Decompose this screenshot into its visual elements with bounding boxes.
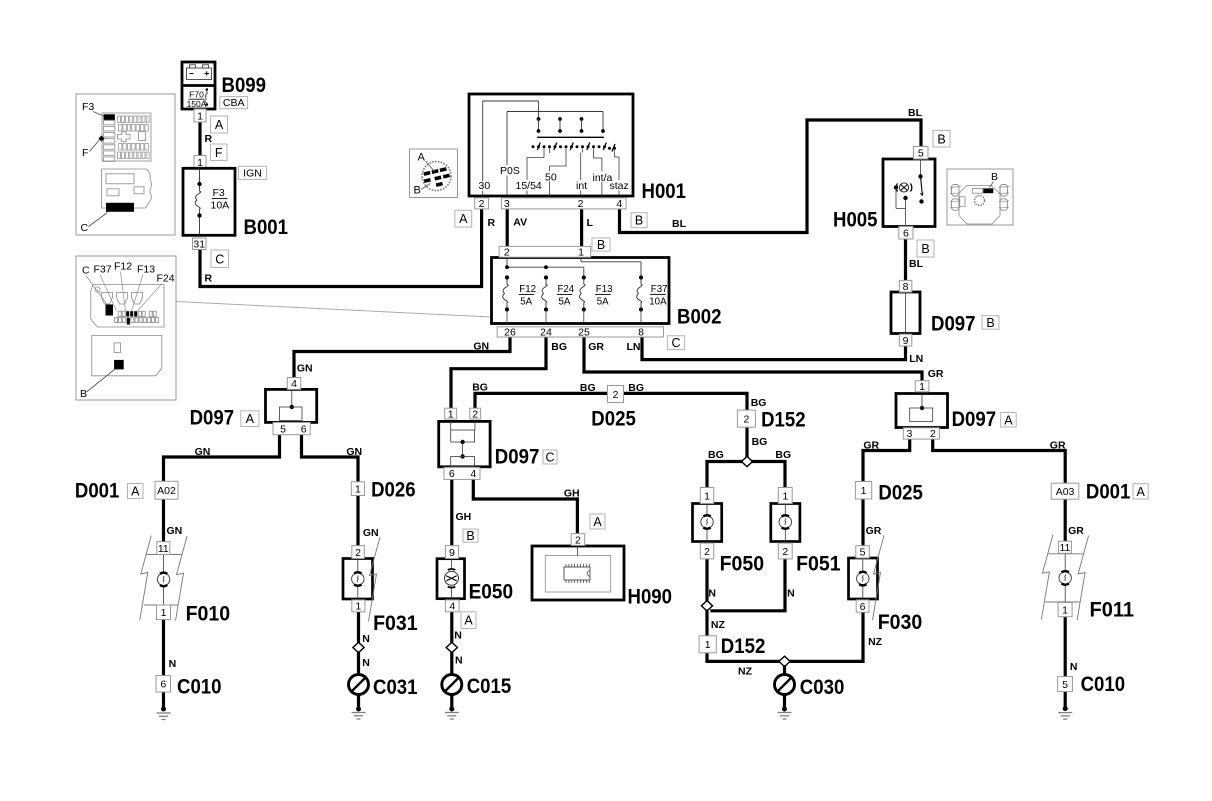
- wire N F051 pin2 to junction: [712, 559, 785, 611]
- connector box B E050: [463, 529, 478, 543]
- svg-text:15/54: 15/54: [516, 180, 542, 192]
- svg-text:5: 5: [860, 547, 866, 559]
- svg-text:B: B: [937, 132, 945, 146]
- svg-text:GN: GN: [167, 525, 183, 537]
- svg-text:D025: D025: [878, 482, 923, 505]
- svg-text:GR: GR: [588, 341, 604, 353]
- pin 2 D152: [737, 410, 755, 427]
- wire GR D001 A03 to F011 pin11: [1064, 499, 1067, 541]
- svg-text:1: 1: [448, 408, 454, 420]
- svg-text:GH: GH: [564, 488, 580, 500]
- connector D097 A right: [896, 394, 948, 428]
- svg-text:BL: BL: [672, 218, 687, 230]
- connector box A D097 left: [241, 411, 259, 427]
- svg-text:C: C: [545, 451, 554, 465]
- svg-text:CBA: CBA: [223, 97, 245, 109]
- label BG below D152 pin2: [752, 436, 768, 448]
- svg-text:F12: F12: [114, 261, 132, 273]
- pin 31 B001: [193, 238, 207, 251]
- svg-text:25: 25: [578, 326, 590, 338]
- svg-text:B: B: [80, 388, 87, 400]
- svg-text:D152: D152: [761, 409, 806, 432]
- pin 6 F030: [856, 600, 869, 613]
- wire BG D097 pin2 to D152 pin2: [475, 393, 747, 456]
- svg-text:BL: BL: [908, 107, 923, 119]
- svg-text:F3: F3: [82, 101, 94, 113]
- svg-text:1: 1: [919, 381, 925, 393]
- svg-text:10A: 10A: [211, 200, 230, 212]
- svg-text:N: N: [1070, 661, 1078, 673]
- label F051: [796, 553, 841, 576]
- svg-text:6: 6: [903, 227, 909, 239]
- svg-text:N: N: [455, 655, 463, 667]
- svg-text:GR: GR: [866, 525, 882, 537]
- wire R B099 pin1 to B001 pin1: [198, 122, 201, 156]
- courtesy lamp F031: [343, 537, 380, 622]
- svg-text:1: 1: [705, 639, 711, 651]
- label NZ wire F030: [868, 636, 883, 648]
- label BL wire at H001: [672, 218, 687, 230]
- svg-text:BG: BG: [751, 397, 767, 409]
- wire AV H001 pin3 to B002 pin2: [506, 209, 509, 248]
- label GR to A03: [1050, 440, 1066, 452]
- pin 1 B001: [194, 156, 206, 169]
- pin 1 F051: [778, 488, 792, 504]
- inset car location view (B): [947, 169, 1013, 225]
- pin 9 E050: [445, 546, 458, 559]
- wire GN D097 pin6 to D026 pin1: [302, 433, 359, 482]
- pin 9 D097 B: [899, 334, 912, 347]
- wire GR D097 pin2 to D001 A03: [933, 439, 1065, 484]
- svg-text:30: 30: [479, 180, 491, 192]
- connector box B D097: [982, 316, 999, 330]
- svg-text:2: 2: [472, 408, 478, 420]
- connector D097 C: [439, 421, 490, 466]
- pointer line inset C/F37/F12/F13/F24 to B002: [176, 302, 492, 318]
- junction diamond F031 N: [353, 642, 364, 652]
- connector D097 A left: [266, 389, 317, 422]
- connector box A D001 right: [1133, 484, 1148, 499]
- svg-text:9: 9: [903, 335, 909, 347]
- svg-text:P0S: P0S: [500, 165, 520, 177]
- svg-text:2: 2: [355, 547, 361, 559]
- pin 1 D097 right: [915, 381, 929, 393]
- ground C015: [442, 675, 462, 720]
- pin 1 F050: [700, 488, 713, 504]
- pin 1 F031: [352, 600, 365, 613]
- label BG at D097C pin2: [472, 382, 488, 394]
- svg-text:B: B: [466, 529, 474, 543]
- svg-text:N: N: [362, 633, 370, 645]
- label D152 bottom: [721, 635, 766, 658]
- wire N E050 pin4 to junction: [450, 611, 453, 642]
- code box IGN: [239, 166, 267, 179]
- svg-text:6: 6: [449, 468, 455, 480]
- ground C030: [775, 675, 795, 720]
- label BG to F050: [708, 449, 724, 461]
- inset round connector view (A, B): [410, 149, 458, 198]
- svg-text:C: C: [671, 336, 680, 350]
- label GN above F031: [363, 527, 379, 539]
- pin strip B002 top pins 2 1: [499, 246, 591, 258]
- pin 1 D097 C: [445, 408, 457, 420]
- svg-text:5: 5: [280, 424, 286, 436]
- pin 2 H090: [571, 534, 585, 547]
- wire NZ junction to D152 pin1: [705, 611, 708, 636]
- svg-text:1: 1: [704, 490, 710, 502]
- label L wire: [587, 217, 594, 229]
- svg-text:5: 5: [1062, 679, 1068, 691]
- svg-text:F010: F010: [186, 603, 231, 626]
- svg-text:GR: GR: [1050, 440, 1066, 452]
- svg-text:H090: H090: [628, 586, 673, 609]
- wire GN D026 pin1 to F031 pin2: [356, 496, 359, 547]
- label R wire B099-B001: [205, 133, 213, 145]
- label N wire F051: [787, 588, 795, 600]
- connector box A H001: [455, 210, 472, 227]
- interior lamp F011: [1041, 535, 1088, 620]
- svg-text:GN: GN: [363, 527, 379, 539]
- svg-text:C031: C031: [373, 676, 418, 699]
- label D001 left: [75, 480, 120, 503]
- svg-text:A: A: [418, 152, 426, 164]
- connector box B H001: [631, 213, 647, 228]
- svg-text:H001: H001: [642, 180, 687, 203]
- headlamp switch H005: [883, 159, 935, 227]
- wire GR B002 pin25 to D097 pin1: [584, 336, 922, 381]
- svg-text:31: 31: [193, 239, 205, 251]
- code box CBA: [220, 97, 248, 110]
- pin 1 F011: [1058, 603, 1072, 617]
- wire N F010 pin1 to C010 pin6: [162, 620, 165, 676]
- boot lamp F030: [849, 536, 885, 621]
- number plate lamp F050: [693, 504, 722, 542]
- svg-text:B: B: [986, 316, 994, 330]
- svg-text:E050: E050: [469, 581, 513, 604]
- svg-text:B001: B001: [244, 216, 289, 239]
- svg-text:GN: GN: [297, 363, 313, 375]
- svg-text:C030: C030: [800, 676, 845, 699]
- svg-text:9: 9: [449, 547, 455, 559]
- svg-text:F050: F050: [720, 553, 765, 576]
- pin 11 F010: [157, 542, 170, 555]
- svg-text:int: int: [576, 180, 587, 192]
- svg-text:F: F: [82, 147, 88, 159]
- svg-text:F030: F030: [878, 611, 923, 634]
- label N wire F010: [169, 658, 177, 670]
- svg-text:A03: A03: [1056, 486, 1075, 498]
- pin 1 F010: [157, 605, 171, 620]
- pin 1 D026: [351, 482, 364, 496]
- label F050: [720, 553, 765, 576]
- pin 6 C010 left: [156, 676, 171, 693]
- svg-text:D001: D001: [75, 480, 120, 503]
- pin strip D097 C pins 6 4: [444, 467, 480, 480]
- svg-text:NZ: NZ: [868, 636, 883, 648]
- inset connector location view (C, F37, F12, F13, F24, B): [76, 256, 176, 400]
- svg-text:R: R: [205, 133, 213, 145]
- connector box A E050: [461, 612, 476, 629]
- pin strip D097 A pins 5 6: [273, 422, 310, 435]
- label N wire E050 lower: [455, 655, 463, 667]
- ground C010 left: [157, 692, 171, 720]
- svg-text:1: 1: [161, 607, 167, 619]
- svg-text:F: F: [215, 146, 223, 160]
- connector box A H090: [590, 514, 605, 529]
- svg-text:6: 6: [860, 601, 866, 613]
- svg-text:2: 2: [613, 389, 619, 401]
- svg-text:1: 1: [578, 246, 584, 258]
- pin 1 D025 right: [855, 482, 871, 500]
- wire LN D097 pin9 to B002 pin8: [642, 336, 906, 360]
- pin A03 D001 right: [1051, 483, 1079, 499]
- label C015: [467, 675, 512, 698]
- svg-text:BG: BG: [580, 382, 596, 394]
- label BG to F051: [775, 449, 791, 461]
- svg-text:10A: 10A: [649, 297, 667, 308]
- pin 11 F011: [1058, 541, 1071, 554]
- label GN wire vertical: [297, 363, 313, 375]
- svg-text:1: 1: [1062, 604, 1068, 616]
- pin A02 D001: [155, 481, 178, 499]
- svg-text:BG: BG: [708, 449, 724, 461]
- svg-text:GR: GR: [928, 368, 944, 380]
- svg-text:F24: F24: [157, 273, 175, 285]
- pin 2 F051: [778, 543, 792, 559]
- svg-text:3: 3: [906, 428, 912, 440]
- svg-text:N: N: [787, 588, 795, 600]
- svg-text:L: L: [587, 217, 594, 229]
- label B099: [222, 74, 267, 97]
- connector box A: [211, 116, 228, 133]
- pin 6 H005: [899, 226, 913, 239]
- label F011: [1090, 599, 1135, 622]
- pin 8 D097 B: [899, 280, 912, 293]
- svg-text:F13: F13: [596, 284, 613, 295]
- svg-text:1: 1: [355, 483, 361, 495]
- svg-text:11: 11: [158, 543, 169, 555]
- junction diamond F050 N: [701, 601, 712, 611]
- svg-text:BG: BG: [775, 449, 791, 461]
- svg-text:2: 2: [578, 198, 584, 210]
- fuse B001 F3 10A: [183, 168, 235, 235]
- wire N F031 pin1 to junction: [357, 612, 360, 642]
- fusebox B002 (F12 F24 F13 F37): [492, 258, 670, 324]
- label LN wire D097 pin9: [909, 353, 923, 365]
- svg-text:F12: F12: [519, 284, 536, 295]
- label D025 right: [878, 482, 923, 505]
- svg-text:GN: GN: [346, 446, 362, 458]
- label D097 A left: [190, 407, 235, 430]
- wire GR D097 pin3 to D025 pin1: [863, 439, 910, 482]
- ignition switch H001: [469, 94, 633, 196]
- connector box C: [211, 250, 229, 268]
- svg-text:11: 11: [1059, 542, 1070, 554]
- svg-text:F13: F13: [137, 264, 155, 276]
- label N wire F031 lower: [362, 657, 370, 669]
- svg-text:8: 8: [638, 326, 644, 338]
- junction diamond E050 N: [446, 642, 457, 652]
- connector box B H005 bottom: [917, 240, 934, 257]
- pin strip B002 bottom pins 26 24 25 8: [497, 326, 663, 338]
- svg-text:C015: C015: [467, 675, 512, 698]
- svg-text:A: A: [593, 515, 602, 529]
- svg-text:F37: F37: [94, 264, 112, 276]
- svg-text:2: 2: [704, 546, 710, 558]
- connector box A D001 left: [128, 484, 144, 499]
- svg-text:4: 4: [449, 601, 455, 613]
- label GR to D025: [863, 440, 879, 452]
- battery B099 with fuse F70 150A: [182, 62, 215, 109]
- svg-text:50: 50: [545, 172, 557, 184]
- ground C010 right: [1058, 692, 1072, 720]
- label R wire H001: [488, 217, 496, 229]
- label D152 top: [761, 409, 806, 432]
- svg-text:A: A: [215, 118, 224, 132]
- svg-text:8: 8: [903, 281, 909, 293]
- svg-text:NZ: NZ: [711, 619, 726, 631]
- label B002: [677, 306, 722, 329]
- label BG at B002 pin24: [551, 341, 567, 353]
- label BL wire H005-D097: [909, 258, 924, 270]
- svg-text:F031: F031: [373, 612, 418, 635]
- connector box B B002: [592, 238, 610, 252]
- wire BG junction to F051 pin1: [753, 462, 785, 488]
- label N wire F031 upper: [362, 633, 370, 645]
- label C031: [373, 676, 418, 699]
- svg-text:B: B: [414, 185, 421, 197]
- svg-text:2: 2: [782, 546, 788, 558]
- label E050: [469, 581, 513, 604]
- svg-text:4: 4: [616, 198, 622, 210]
- svg-text:LN: LN: [627, 341, 641, 353]
- pin 2 D025: [608, 386, 624, 403]
- svg-text:NZ: NZ: [738, 666, 753, 678]
- wire GN D001 A02 to F010 pin11: [162, 499, 165, 542]
- connector box C B002: [667, 336, 684, 350]
- connector box A D097 right: [1001, 413, 1017, 428]
- svg-text:BG: BG: [472, 382, 488, 394]
- svg-text:A02: A02: [157, 485, 176, 497]
- svg-text:GH: GH: [456, 511, 472, 523]
- label BG above D152 pin2: [751, 397, 767, 409]
- pin 4 E050: [445, 600, 459, 613]
- wire L H001 pin2 to B002 pin1: [580, 209, 583, 248]
- svg-text:IGN: IGN: [243, 168, 262, 180]
- label NZ wire above D152 pin1: [711, 619, 726, 631]
- pin 2 D097 C: [470, 408, 481, 420]
- label H090: [628, 586, 673, 609]
- svg-text:B: B: [597, 238, 605, 252]
- svg-text:B: B: [921, 242, 929, 256]
- label D097 B: [931, 313, 976, 336]
- label GN above F010: [167, 525, 183, 537]
- svg-text:B: B: [991, 171, 998, 183]
- svg-text:F70: F70: [189, 90, 204, 100]
- inset fuse-panel location view (F3, F, C): [76, 94, 175, 235]
- label BG right of D025 pin2: [628, 382, 644, 394]
- svg-text:N: N: [708, 588, 716, 600]
- label AV wire: [513, 217, 527, 229]
- label GR above F030: [866, 525, 882, 537]
- label GR wire right: [928, 368, 944, 380]
- label GN to A02: [195, 446, 211, 458]
- pin 1 D152: [699, 636, 716, 653]
- label D025 mid: [591, 408, 636, 431]
- pin strip H001 connector B pins 3 2 4: [501, 198, 626, 210]
- junction diamond C030 NZ: [779, 656, 790, 666]
- pin 5 F030: [856, 546, 870, 559]
- label NZ wire below D152: [738, 666, 753, 678]
- svg-text:GR: GR: [863, 440, 879, 452]
- svg-text:5: 5: [918, 148, 924, 160]
- svg-text:R: R: [205, 273, 213, 285]
- label GR at B002 pin25: [588, 341, 604, 353]
- svg-text:4: 4: [470, 468, 476, 480]
- svg-text:N: N: [454, 630, 462, 642]
- pin 2 F050: [700, 543, 713, 559]
- wire GR D025 pin1 to F030 pin5: [861, 499, 864, 546]
- pin 1 B099: [194, 109, 206, 122]
- svg-text:A: A: [464, 614, 473, 628]
- label H001: [642, 180, 687, 203]
- svg-text:N: N: [169, 658, 177, 670]
- connector D097 B: [891, 292, 920, 334]
- number plate lamp F051: [771, 504, 800, 542]
- pin strip D097 right pins 3 2: [903, 428, 939, 440]
- label H005: [833, 209, 878, 232]
- label D001 right: [1086, 481, 1131, 504]
- svg-text:1: 1: [861, 485, 867, 497]
- junction diamond BG D152: [741, 456, 752, 466]
- svg-text:C: C: [82, 265, 90, 277]
- wire NZ junction to C030: [783, 667, 786, 675]
- pin 5 C010 right: [1058, 677, 1073, 692]
- svg-text:BG: BG: [628, 382, 644, 394]
- svg-text:C010: C010: [177, 676, 222, 699]
- wire GN B002 pin26 to D097 pin4: [294, 336, 510, 378]
- label LN at B002 pin8: [627, 341, 641, 353]
- svg-text:D097: D097: [190, 407, 235, 430]
- svg-text:5A: 5A: [520, 297, 532, 308]
- cigar lighter lamp E050: [437, 559, 465, 599]
- svg-text:D001: D001: [1086, 481, 1131, 504]
- svg-text:A: A: [1136, 485, 1145, 499]
- svg-text:A: A: [459, 212, 468, 226]
- svg-text:150A: 150A: [187, 99, 207, 109]
- svg-text:D152: D152: [721, 635, 766, 658]
- svg-text:N: N: [362, 657, 370, 669]
- svg-text:R: R: [488, 217, 496, 229]
- label R wire B001-H001: [205, 273, 213, 285]
- svg-text:staz: staz: [610, 180, 629, 192]
- svg-text:3: 3: [504, 198, 510, 210]
- svg-text:F3: F3: [213, 187, 225, 199]
- label N wire F011: [1070, 661, 1078, 673]
- svg-text:B: B: [635, 214, 643, 228]
- connector box F: [211, 144, 228, 161]
- svg-text:C: C: [215, 252, 224, 266]
- svg-text:C: C: [81, 222, 89, 234]
- interior lamp F010: [140, 536, 187, 621]
- wire N junction to C031: [357, 653, 360, 675]
- label GN to D026: [346, 446, 362, 458]
- svg-text:D025: D025: [591, 408, 636, 431]
- svg-text:C010: C010: [1081, 673, 1126, 696]
- svg-text:2: 2: [743, 413, 749, 425]
- label N wire F050: [708, 588, 716, 600]
- svg-text:5A: 5A: [597, 297, 609, 308]
